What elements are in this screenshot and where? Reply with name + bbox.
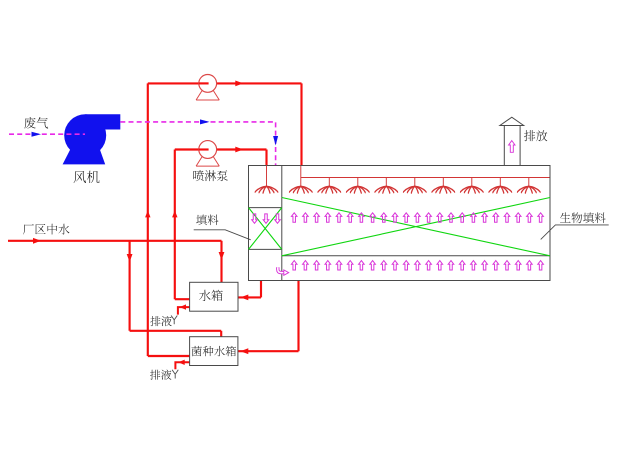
vessel: column packing top line (249, 207, 282, 209)
pump P2 喷淋泵 (spray pump) (196, 141, 219, 167)
label 排液 drain 1 (150, 316, 171, 326)
wire: top pump discharge downcomer into vessel (300, 83, 302, 165)
leader: 生物填料 callout (541, 225, 609, 240)
wire: water tank suction horizontal (175, 298, 190, 300)
spray stem 1 (300, 166, 302, 186)
spray nozzle 6 (432, 186, 455, 193)
wire: top pump inlet run (to pump center) (148, 82, 208, 84)
arrow: column drain into water tank (240, 295, 248, 301)
wire: water tank drain elbow (178, 307, 190, 315)
vessel: inlet column divider (281, 166, 283, 281)
wire: spray pump discharge run (217, 148, 267, 150)
wire: plant reclaimed water main (8, 240, 222, 242)
arrow: seed tank drain left (178, 360, 185, 365)
packing X-brace: inlet column (green) (249, 208, 282, 250)
label 风机 fan (74, 171, 100, 183)
spray stem 3 (357, 178, 359, 186)
wire: vessel main drain drop (297, 281, 299, 352)
spray header pipe (thin red) (301, 177, 550, 179)
drain funnel Y 1 (171, 316, 177, 325)
fan blower 风机 (blue centrifugal fan symbol) (63, 114, 121, 164)
arrow: spray pump discharge right (235, 147, 243, 153)
arrow: water tank drain left (180, 304, 187, 309)
spray stem 5 (414, 178, 416, 186)
packing X-brace: main biological bed (green) (282, 198, 550, 256)
label 生物填料 bio packing (560, 212, 606, 223)
wire: vessel column drain drop (260, 281, 262, 298)
spray stem 2 (328, 178, 330, 186)
arrow: top pump discharge right (235, 81, 243, 87)
wire: vessel main drain to seed tank (238, 350, 299, 352)
spray stem 4 (385, 178, 387, 186)
wire: seed-tank suction riser to top pump (vertical x=147.8) (147, 83, 149, 356)
drain funnel Y 2 (172, 370, 178, 379)
spray nozzle 4 (375, 186, 398, 193)
vessel: biofilter housing outline (249, 166, 551, 281)
spray stem 6 (442, 178, 444, 186)
spray nozzle 7 (460, 186, 483, 193)
vessel: main packing bottom line (282, 255, 550, 257)
label 喷淋泵 spray pump (193, 170, 227, 181)
gas down-arrows in inlet column (252, 214, 258, 223)
spray nozzle 8 (489, 186, 512, 193)
tank: 菌种水箱 (seed bacteria tank) (190, 337, 238, 366)
wire: seed tank feed branch horizontal (130, 330, 222, 332)
wire: vessel column drain to water tank (238, 296, 261, 298)
spray stem 7 (471, 178, 473, 186)
label 厂区中水 reclaimed water (23, 224, 69, 235)
wire: seed tank suction horizontal into tank left (148, 355, 190, 357)
arrow: reclaimed water main flow right (33, 238, 41, 244)
wire: seed tank feed branch drop (129, 241, 131, 331)
arrow: waste gas inlet (blue) (32, 132, 42, 137)
gas up-arrow row, below bed (291, 261, 543, 270)
arrow: fan outlet gas (blue right) (200, 119, 210, 124)
label 废气 waste gas (24, 117, 48, 129)
dashed gas line: waste gas inlet to fan (9, 133, 85, 135)
gas up-arrow row, mid bed (291, 213, 543, 222)
wire: seed tank feed stub into tank top (220, 331, 222, 337)
spray nozzle 2 (318, 186, 341, 193)
arrow: water tank feed down (219, 252, 225, 260)
wire: water-tank suction riser to spray pump (vertical x=174.8) (174, 150, 176, 300)
arrow: seed branch feed down (127, 254, 133, 262)
spray nozzle 5 (403, 186, 426, 193)
gas up-arrow in stack (509, 141, 515, 153)
label 排放 exhaust (524, 130, 547, 141)
arrow: main drain into seed tank (240, 348, 248, 354)
wire: spray pump inlet run (175, 148, 208, 150)
arrow: seed suction riser up (145, 210, 150, 217)
wire: water tank feed drop (220, 241, 222, 282)
arrow: water suction riser up (172, 210, 177, 217)
spray feed stem: inlet column (266, 166, 268, 186)
vessel: column packing bottom line (249, 248, 282, 250)
pump P1 (circulation pump, top) (196, 75, 219, 101)
tank: 水箱 (water tank) (190, 282, 238, 311)
spray nozzle 3 (346, 186, 369, 193)
spray nozzle 9 (517, 186, 540, 193)
gas turn elbow arrow at column bottom (278, 267, 289, 275)
exhaust stack 排放 (500, 117, 524, 165)
spray nozzle 1 (289, 186, 312, 193)
label 排液 drain 2 (150, 370, 171, 380)
spray stem 9 (528, 178, 530, 186)
arrow: gas drop into vessel (blue down) (273, 136, 278, 146)
label 水箱 water tank (199, 290, 223, 301)
leader: 填料 callout (194, 230, 251, 240)
spray nozzle: inlet column (255, 186, 278, 193)
wire: spray pump discharge downcomer (265, 150, 267, 166)
spray stem 8 (499, 178, 501, 186)
wire: seed tank drain elbow (175, 362, 189, 369)
wire: top pump discharge run (217, 82, 302, 84)
label 填料 packing (196, 215, 218, 226)
label 菌种水箱 seed tank (192, 346, 237, 356)
dashed gas line: fan outlet to vessel (120, 122, 275, 166)
